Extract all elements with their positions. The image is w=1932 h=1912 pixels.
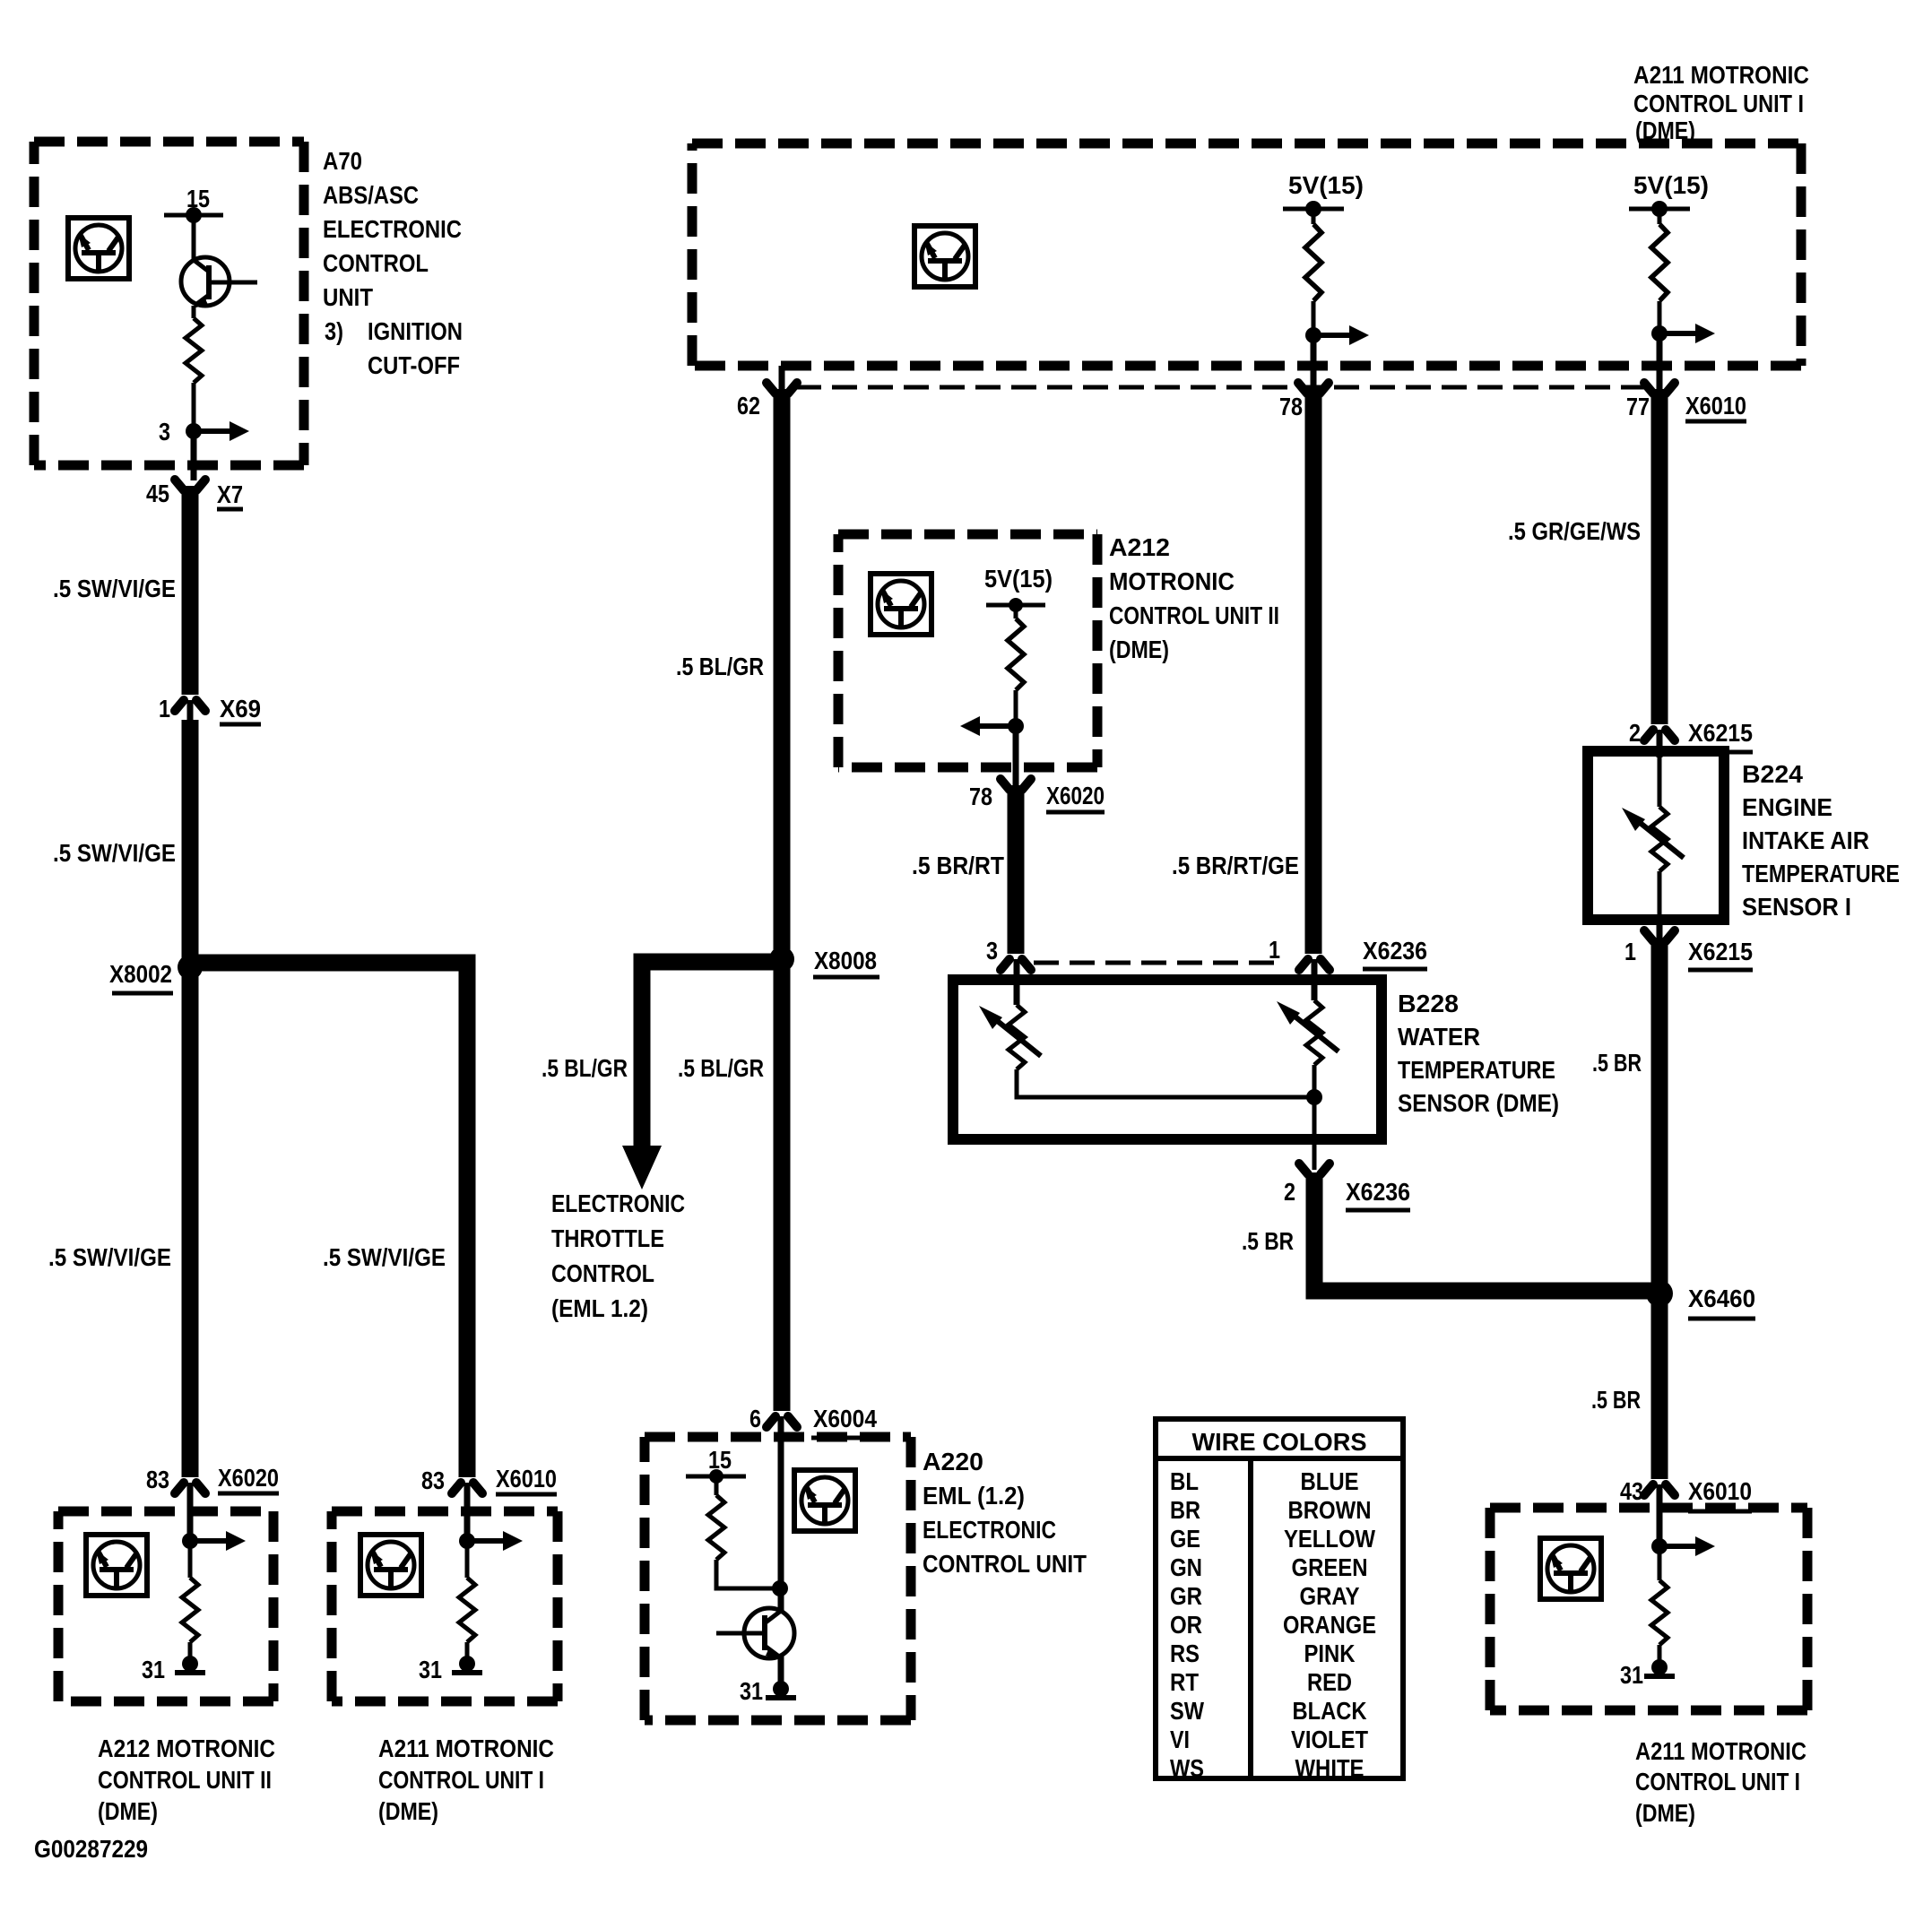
svg-text:X8008: X8008 <box>814 947 877 974</box>
A220 control-unit symbol <box>794 1470 855 1531</box>
connector X6236 pin2 <box>1299 1164 1330 1174</box>
svg-text:.5 SW/VI/GE: .5 SW/VI/GE <box>48 1243 171 1271</box>
svg-text:A211 MOTRONIC: A211 MOTRONIC <box>1635 1737 1806 1765</box>
wire 15 to transistor <box>192 215 196 260</box>
svg-text:31: 31 <box>740 1677 763 1705</box>
svg-text:A70: A70 <box>323 147 362 175</box>
connector X69 pin1 <box>175 700 205 711</box>
junction dot (B228) <box>1306 1089 1322 1105</box>
wire colors legend table <box>1156 1419 1403 1782</box>
svg-text:ABS/ASC: ABS/ASC <box>323 181 419 209</box>
ECU A220 EML dashed box <box>645 1432 911 1442</box>
svg-text:RT: RT <box>1170 1668 1199 1696</box>
svg-text:GE: GE <box>1170 1525 1200 1553</box>
A212 control-unit symbol <box>871 574 931 635</box>
svg-text:UNIT: UNIT <box>323 283 373 311</box>
wire resistor to ground <box>188 1642 193 1663</box>
svg-text:(DME): (DME) <box>1635 1799 1695 1827</box>
wire resistor to junction <box>716 1560 776 1588</box>
svg-text:15: 15 <box>708 1446 732 1474</box>
NTC resistor right (B228) <box>1277 1000 1339 1065</box>
svg-text:A220: A220 <box>923 1448 983 1475</box>
wire .5 SW/VI/GE (X69 to X6020) <box>182 720 199 1477</box>
svg-text:YELLOW: YELLOW <box>1284 1525 1375 1553</box>
svg-text:B228: B228 <box>1398 990 1459 1017</box>
svg-text:B224: B224 <box>1742 760 1803 788</box>
svg-text:(EML 1.2): (EML 1.2) <box>551 1294 648 1322</box>
svg-text:X6010: X6010 <box>496 1465 557 1492</box>
splice X8008 <box>769 947 794 972</box>
svg-text:GR: GR <box>1170 1582 1202 1610</box>
svg-text:X6020: X6020 <box>1046 782 1105 809</box>
svg-text:31: 31 <box>142 1656 165 1683</box>
connector X7 pin45 <box>175 480 205 490</box>
wire resistor to node 3 <box>192 383 196 431</box>
wire to resistor <box>1312 209 1316 224</box>
svg-text:3: 3 <box>159 418 170 446</box>
svg-text:X6215: X6215 <box>1688 938 1753 965</box>
node with arrow (big box right) <box>1651 324 1715 343</box>
connector pin 77 X6010 <box>1644 383 1675 394</box>
svg-text:G00287229: G00287229 <box>34 1835 148 1863</box>
svg-text:BLACK: BLACK <box>1293 1697 1367 1725</box>
ECU A70 ABS/ASC dashed box <box>34 137 304 147</box>
connector X6020 pin83 (left) <box>175 1483 205 1493</box>
svg-text:(DME): (DME) <box>1109 636 1169 663</box>
connector pin 78 (big box) <box>1298 383 1329 394</box>
svg-text:WS: WS <box>1170 1754 1204 1782</box>
junction node (A220) <box>772 1580 788 1596</box>
svg-text:31: 31 <box>1620 1661 1643 1689</box>
svg-text:1: 1 <box>159 695 170 722</box>
ground 31 (A220) <box>766 1681 796 1698</box>
A211 middle control-unit symbol <box>360 1535 421 1596</box>
connector plane dashed line below big box <box>796 385 1654 390</box>
svg-text:BROWN: BROWN <box>1288 1496 1372 1524</box>
svg-text:X6215: X6215 <box>1688 719 1753 747</box>
wire emitter to ground <box>778 1657 784 1683</box>
svg-text:.5 SW/VI/GE: .5 SW/VI/GE <box>53 575 176 602</box>
svg-text:A211 MOTRONIC: A211 MOTRONIC <box>1633 61 1809 89</box>
wire node to resistor <box>465 1541 470 1578</box>
svg-text:INTAKE AIR: INTAKE AIR <box>1742 826 1869 854</box>
svg-text:78: 78 <box>969 783 992 810</box>
svg-text:A212 MOTRONIC: A212 MOTRONIC <box>98 1735 275 1762</box>
svg-text:1: 1 <box>1624 938 1636 965</box>
wire .5 SW/VI/GE (45 to X69) <box>182 486 199 695</box>
node with left arrow (A212) <box>960 716 1024 736</box>
svg-text:1: 1 <box>1269 936 1280 964</box>
resistor (A212 bottom) <box>182 1578 198 1642</box>
svg-text:.5 BL/GR: .5 BL/GR <box>676 653 764 680</box>
transistor Q (A70 ignition cut-off) <box>181 257 257 308</box>
node 3 with arrow (A70) <box>186 421 249 441</box>
node with arrow (big box left) <box>1305 325 1369 345</box>
resistor (A70) <box>186 318 202 383</box>
svg-text:5V(15): 5V(15) <box>1633 171 1709 199</box>
A212 bottom control-unit symbol <box>86 1535 147 1596</box>
svg-text:RED: RED <box>1307 1668 1352 1696</box>
svg-text:GN: GN <box>1170 1553 1202 1581</box>
svg-text:15: 15 <box>186 185 210 212</box>
svg-text:.5 BL/GR: .5 BL/GR <box>541 1054 628 1082</box>
svg-text:CONTROL UNIT I: CONTROL UNIT I <box>1633 90 1804 117</box>
svg-text:X6460: X6460 <box>1688 1285 1755 1312</box>
wire .5 BR (2 to X6460) <box>1314 1172 1652 1291</box>
svg-text:(DME): (DME) <box>1635 117 1695 144</box>
ECU A211 big dashed box <box>692 139 1801 149</box>
svg-text:IGNITION: IGNITION <box>368 317 463 345</box>
svg-text:.5 BR/RT/GE: .5 BR/RT/GE <box>1172 852 1299 879</box>
svg-text:PINK: PINK <box>1304 1639 1356 1667</box>
ECU A212 dashed box <box>838 530 1097 540</box>
svg-text:A211 MOTRONIC: A211 MOTRONIC <box>378 1735 554 1762</box>
wire to resistor <box>1014 605 1018 619</box>
svg-text:.5 BR: .5 BR <box>1242 1227 1294 1255</box>
A70 control-unit symbol <box>68 218 129 279</box>
resistor (A211 right) <box>1651 1580 1668 1645</box>
svg-text:A212: A212 <box>1109 533 1170 561</box>
resistor (A220) <box>708 1495 724 1560</box>
node with arrow (A212 bottom) <box>182 1531 246 1551</box>
svg-text:TEMPERATURE: TEMPERATURE <box>1742 860 1900 887</box>
connector X6236 pin1 <box>1299 959 1330 970</box>
svg-text:43: 43 <box>1620 1477 1643 1505</box>
svg-text:ORANGE: ORANGE <box>1283 1611 1376 1639</box>
transistor Q (A220) <box>716 1608 794 1659</box>
wire .5 BR (1 to X6460) <box>1651 938 1668 1479</box>
svg-text:(DME): (DME) <box>378 1797 438 1825</box>
connector X6215 pin1 <box>1657 920 1663 939</box>
connector X6004 pin6 <box>767 1416 797 1427</box>
svg-text:ELECTRONIC: ELECTRONIC <box>323 215 462 243</box>
svg-text:ELECTRONIC: ELECTRONIC <box>551 1190 685 1217</box>
svg-text:2: 2 <box>1284 1178 1295 1206</box>
svg-text:BLUE: BLUE <box>1301 1467 1359 1495</box>
svg-text:SW: SW <box>1170 1697 1204 1725</box>
wire node to pin 78 <box>1312 301 1316 335</box>
wire node to pin 77 <box>1658 301 1662 333</box>
svg-text:ENGINE: ENGINE <box>1742 793 1832 821</box>
wire to resistor <box>1658 209 1662 224</box>
svg-text:X7: X7 <box>217 480 243 508</box>
svg-text:X6010: X6010 <box>1685 392 1746 420</box>
svg-text:SENSOR I: SENSOR I <box>1742 893 1851 921</box>
node 5V(15) left <box>1283 207 1344 212</box>
svg-text:.5 SW/VI/GE: .5 SW/VI/GE <box>53 839 176 867</box>
wire node 3 to connector X7 <box>191 431 197 480</box>
svg-text:X6004: X6004 <box>813 1405 877 1432</box>
node with arrow (A211 right) <box>1651 1536 1715 1556</box>
svg-text:.5 SW/VI/GE: .5 SW/VI/GE <box>323 1243 446 1271</box>
svg-text:WIRE COLORS: WIRE COLORS <box>1192 1428 1367 1456</box>
node 15 (A220) <box>686 1475 746 1479</box>
svg-text:5V(15): 5V(15) <box>1288 171 1364 199</box>
connector X6010 pin43 <box>1644 1484 1675 1495</box>
svg-text:OR: OR <box>1170 1611 1202 1639</box>
svg-text:TEMPERATURE: TEMPERATURE <box>1398 1056 1555 1084</box>
node 15 (A70) <box>164 213 223 218</box>
svg-text:2: 2 <box>1629 719 1641 747</box>
svg-text:X6236: X6236 <box>1363 937 1427 965</box>
wire branch X8002 to X6010 <box>198 963 467 1477</box>
svg-text:X69: X69 <box>220 695 261 722</box>
resistor (A212) <box>1008 619 1024 690</box>
svg-text:62: 62 <box>737 392 760 420</box>
svg-text:BR: BR <box>1170 1496 1200 1524</box>
svg-text:83: 83 <box>421 1466 445 1494</box>
svg-text:WATER: WATER <box>1398 1023 1480 1051</box>
svg-text:CONTROL UNIT II: CONTROL UNIT II <box>1109 601 1279 629</box>
resistor (big box left) <box>1305 224 1321 301</box>
svg-text:.5 BR/RT: .5 BR/RT <box>912 852 1004 879</box>
arrow to electronic throttle control <box>622 1146 662 1190</box>
sensor B228 water temperature box <box>953 980 1382 1139</box>
wire resistor to ground <box>465 1642 470 1663</box>
node 5V(15) (A212) <box>986 603 1045 608</box>
svg-text:X6020: X6020 <box>218 1464 279 1492</box>
NTC resistor left (B228) <box>979 1005 1041 1069</box>
svg-text:.5 BL/GR: .5 BL/GR <box>678 1054 764 1082</box>
svg-text:78: 78 <box>1279 393 1303 420</box>
wire node to resistor <box>188 1541 193 1578</box>
svg-text:CONTROL UNIT I: CONTROL UNIT I <box>378 1766 544 1794</box>
ECU A211 bottom-right dashed box <box>1490 1503 1807 1513</box>
svg-text:WHITE: WHITE <box>1295 1754 1365 1782</box>
wire .5 BR/RT <box>1008 785 1025 954</box>
wire resistor to ground <box>1658 1645 1662 1665</box>
svg-text:X6236: X6236 <box>1346 1178 1410 1206</box>
svg-text:BL: BL <box>1170 1467 1199 1495</box>
internal wire joining sensors <box>1017 1069 1314 1097</box>
svg-text:CONTROL UNIT I: CONTROL UNIT I <box>1635 1768 1800 1795</box>
wire branch X8008 to EML arrow <box>642 962 774 1149</box>
svg-text:45: 45 <box>146 480 169 507</box>
svg-text:77: 77 <box>1626 393 1650 420</box>
svg-text:CONTROL UNIT: CONTROL UNIT <box>923 1550 1087 1578</box>
svg-text:RS: RS <box>1170 1639 1200 1667</box>
svg-text:CONTROL UNIT II: CONTROL UNIT II <box>98 1766 272 1794</box>
svg-text:MOTRONIC: MOTRONIC <box>1109 567 1235 595</box>
svg-text:CUT-OFF: CUT-OFF <box>368 351 460 379</box>
connector X6020 pin78 (A212) <box>1001 779 1031 790</box>
svg-text:ELECTRONIC: ELECTRONIC <box>923 1516 1056 1544</box>
svg-text:EML (1.2): EML (1.2) <box>923 1482 1025 1510</box>
svg-text:.5 BR: .5 BR <box>1592 1049 1642 1077</box>
svg-text:SENSOR (DME): SENSOR (DME) <box>1398 1089 1559 1117</box>
ECU A212 bottom dashed box <box>58 1507 273 1517</box>
svg-text:CONTROL: CONTROL <box>551 1259 654 1287</box>
svg-text:(DME): (DME) <box>98 1797 158 1825</box>
svg-text:THROTTLE: THROTTLE <box>551 1224 664 1252</box>
connector X6010 pin83 (middle) <box>452 1483 482 1493</box>
big box control-unit symbol <box>914 226 975 287</box>
node 5V(15) right <box>1629 207 1690 212</box>
wire node to pin 78 <box>1014 690 1018 726</box>
svg-text:VIOLET: VIOLET <box>1291 1726 1368 1753</box>
ground 31 (A211 middle) <box>452 1656 482 1673</box>
connector X6215 pin2 <box>1644 730 1675 740</box>
ECU A211 bottom-middle dashed box <box>332 1507 558 1517</box>
svg-text:CONTROL: CONTROL <box>323 249 429 277</box>
svg-text:6: 6 <box>749 1405 761 1432</box>
wire node to resistor <box>1658 1546 1662 1580</box>
A211 right control-unit symbol <box>1540 1538 1601 1599</box>
ground 31 (A211 right) <box>1644 1659 1675 1676</box>
svg-text:GREEN: GREEN <box>1292 1553 1368 1581</box>
wire right sensor to pin 2 <box>1313 1065 1317 1170</box>
connector plane dashed line (3 to 1) <box>1034 961 1275 965</box>
svg-text:X6010: X6010 <box>1688 1477 1752 1505</box>
splice X6460 <box>1646 1280 1673 1307</box>
svg-text:.5 GR/GE/WS: .5 GR/GE/WS <box>1508 517 1641 545</box>
svg-text:31: 31 <box>419 1656 442 1683</box>
svg-text:X8002: X8002 <box>109 960 172 988</box>
wire 15 to resistor <box>715 1476 719 1495</box>
wire transistor to resistor <box>192 306 196 318</box>
svg-text:GRAY: GRAY <box>1300 1582 1360 1610</box>
svg-text:VI: VI <box>1170 1726 1190 1753</box>
NTC resistor (B224) <box>1658 757 1662 807</box>
connector pin 3 <box>1001 959 1031 970</box>
connector pin 62 (big box) <box>779 366 785 391</box>
svg-text:3: 3 <box>986 937 998 965</box>
splice X8002 <box>178 955 203 980</box>
resistor (big box right) <box>1651 224 1668 301</box>
svg-text:5V(15): 5V(15) <box>984 565 1053 593</box>
sensor B224 intake air temp box <box>1588 751 1724 920</box>
node with arrow (A211 middle) <box>459 1531 523 1551</box>
ground 31 (A212 bottom) <box>175 1656 205 1673</box>
svg-text:83: 83 <box>146 1466 169 1493</box>
wire .5 GR/GE/WS (77 to X6215) <box>1651 389 1668 724</box>
wire .5 BL/GR (62 to X8008) <box>774 389 791 1411</box>
svg-text:.5 BR: .5 BR <box>1591 1386 1641 1414</box>
svg-text:3): 3) <box>325 317 343 345</box>
wire .5 BR/RT/GE (78 to X6236) <box>1305 389 1322 954</box>
resistor (A211 middle) <box>459 1578 475 1642</box>
